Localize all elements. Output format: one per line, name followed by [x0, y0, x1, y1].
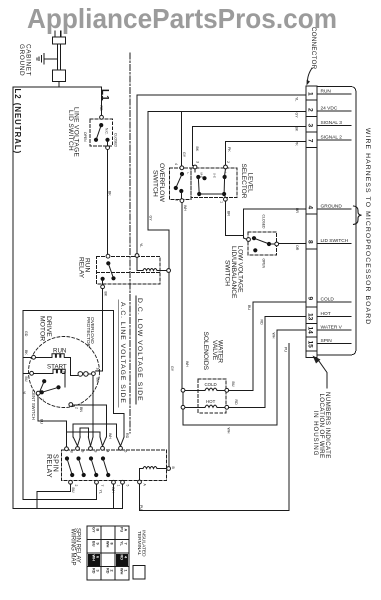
overload protector element	[71, 372, 96, 377]
ground symbol cabinet	[37, 54, 44, 65]
svg-text:RELAY: RELAY	[45, 454, 52, 478]
svg-text:L: L	[186, 173, 190, 175]
svg-text:4: 4	[174, 163, 178, 165]
svg-text:HOT: HOT	[206, 399, 216, 404]
svg-text:SOLENOIDS: SOLENOIDS	[202, 332, 209, 371]
level selector contacts	[193, 165, 227, 201]
svg-text:WH: WH	[108, 433, 112, 439]
svg-text:5: 5	[175, 199, 179, 201]
svg-text:WH: WH	[91, 555, 95, 562]
svg-text:BK: BK	[195, 147, 199, 152]
svg-text:SWITCH: SWITCH	[152, 170, 159, 197]
svg-text:AppliancePartsPros.com: AppliancePartsPros.com	[27, 3, 337, 34]
svg-text:D.C. LOW VOLTAGE SIDE: D.C. LOW VOLTAGE SIDE	[136, 298, 143, 402]
wire GY jog	[148, 229, 169, 231]
svg-text:GY: GY	[91, 527, 95, 533]
svg-text:SWITCH: SWITCH	[223, 260, 230, 286]
svg-text:2: 2	[226, 161, 230, 163]
svg-text:GY: GY	[170, 366, 174, 372]
funnel merge T4	[100, 437, 106, 446]
svg-text:A: A	[143, 484, 147, 487]
svg-text:BR: BR	[295, 208, 299, 213]
svg-text:YL: YL	[99, 490, 103, 494]
svg-text:YL: YL	[119, 541, 123, 547]
spin relay wiring map table	[87, 526, 129, 580]
wire GY bus vertical	[168, 230, 170, 469]
svg-text:CLOSED: CLOSED	[113, 133, 117, 147]
svg-text:BU: BU	[247, 305, 251, 310]
overflow switch contacts	[174, 166, 184, 203]
svg-text:WH: WH	[271, 333, 275, 339]
svg-text:PU: PU	[119, 527, 123, 533]
svg-text:PU: PU	[283, 347, 287, 352]
motor circle bottom terminal	[69, 403, 73, 407]
svg-text:3: 3	[196, 161, 200, 163]
wire L2 neutral vertical run	[12, 87, 14, 509]
svg-text:LID SWITCH: LID SWITCH	[321, 238, 349, 244]
svg-text:GROUND: GROUND	[321, 203, 343, 209]
board stub RUN	[317, 93, 351, 95]
svg-text:PROTECTOR: PROTECTOR	[85, 317, 91, 348]
level selector box	[191, 168, 237, 198]
svg-text:WIRING MAP: WIRING MAP	[69, 529, 75, 566]
spin relay pole 4	[101, 456, 110, 477]
underline D.C. label	[135, 296, 137, 404]
svg-text:BU: BU	[91, 541, 95, 547]
svg-text:VALVE: VALVE	[211, 340, 218, 361]
svg-text:RD: RD	[125, 433, 129, 439]
svg-text:15: 15	[307, 341, 314, 349]
svg-text:S-E: S-E	[213, 173, 217, 178]
wire BU cent switch lower	[38, 395, 66, 421]
svg-text:YL: YL	[295, 97, 299, 101]
svg-text:PU: PU	[139, 505, 143, 510]
svg-text:WH: WH	[185, 361, 189, 367]
wire OR to connector pin8 LID SWITCH	[279, 243, 306, 245]
svg-text:SPIN: SPIN	[321, 338, 333, 344]
wire cabinet ground lead	[44, 58, 57, 60]
svg-text:BK: BK	[108, 191, 112, 196]
svg-text:PK: PK	[227, 147, 231, 152]
wire GY vertical	[147, 111, 149, 230]
svg-text:RD: RD	[99, 106, 103, 112]
svg-text:OPEN: OPEN	[83, 132, 87, 142]
svg-text:1: 1	[307, 92, 314, 96]
svg-text:BK: BK	[104, 292, 108, 297]
svg-text:BU: BU	[71, 488, 75, 493]
board stub SIGNAL 3	[317, 125, 351, 127]
wire BU return	[37, 484, 71, 508]
wire YL vertical to run relay coil	[136, 95, 138, 254]
power plug P1	[53, 31, 66, 44]
water valve solenoids box	[198, 379, 226, 413]
wire branch horizontal py424	[73, 423, 116, 425]
svg-text:7: 7	[307, 139, 314, 143]
funnel merge T3	[88, 437, 93, 446]
svg-text:WH: WH	[119, 568, 123, 575]
line voltage lid switch SW1	[90, 115, 112, 149]
connector pin dividers	[306, 100, 317, 351]
insulated terminal symbol	[133, 566, 145, 580]
spin relay pole 1	[65, 456, 74, 477]
svg-text:CLOSED: CLOSED	[261, 215, 265, 229]
line filter box FL1	[53, 70, 66, 82]
connector strip	[306, 86, 317, 358]
wire BR level selector pin1 down	[225, 201, 243, 235]
motor start winding	[23, 369, 65, 387]
svg-text:HOT: HOT	[321, 311, 331, 317]
svg-text:WH: WH	[105, 541, 109, 548]
svg-text:BR: BR	[226, 211, 230, 216]
centrifugal switch contacts	[36, 379, 60, 395]
board stub 24 VDC	[317, 110, 351, 112]
svg-text:RD: RD	[91, 568, 95, 574]
svg-text:RD: RD	[234, 400, 238, 406]
svg-text:RUN: RUN	[321, 89, 332, 95]
svg-text:8: 8	[93, 451, 97, 453]
svg-text:7: 7	[100, 485, 104, 487]
spin relay box	[62, 450, 167, 481]
svg-text:COLD: COLD	[321, 296, 335, 302]
spin relay coil	[140, 467, 171, 480]
wire harness pin1 RUN YL horizontal	[137, 94, 306, 96]
spin relay pole 2	[76, 456, 85, 477]
svg-text:WATER V: WATER V	[321, 324, 343, 330]
svg-text:OR: OR	[295, 245, 299, 251]
svg-text:B: B	[69, 451, 73, 454]
cold solenoid	[181, 382, 229, 392]
underline A.C. label	[117, 300, 119, 407]
arrow connector pointer	[308, 68, 313, 80]
board stub GROUND	[317, 208, 351, 210]
funnel merge T5	[117, 437, 124, 446]
run relay coil	[135, 254, 170, 273]
wire harness pin7 SIGNAL2 PK horizontal	[226, 141, 307, 143]
svg-text:2: 2	[41, 399, 45, 401]
board stub SIGNAL 2	[317, 139, 351, 141]
svg-text:IN HOUSING: IN HOUSING	[312, 411, 319, 457]
overflow switch box	[170, 168, 192, 200]
svg-text:BN: BN	[79, 407, 83, 412]
leader numbers note to connector	[318, 359, 328, 388]
wire BK run relay to motor overload	[95, 289, 102, 371]
svg-text:16: 16	[96, 368, 100, 372]
svg-text:COLD: COLD	[205, 382, 217, 387]
svg-text:L2 (NEUTRAL): L2 (NEUTRAL)	[13, 89, 22, 155]
svg-text:SIGNAL 3: SIGNAL 3	[321, 120, 343, 126]
wire motor right edge to spin relay T5	[114, 311, 125, 438]
svg-text:START: START	[47, 363, 67, 370]
svg-text:BK: BK	[24, 350, 28, 355]
svg-text:WH: WH	[183, 205, 187, 211]
svg-text:WH: WH	[227, 428, 231, 434]
wire GY drop to overflow switch	[181, 111, 183, 166]
svg-text:L1: L1	[99, 89, 110, 101]
wire BU cold to pin9	[229, 302, 306, 390]
svg-text:BK: BK	[295, 127, 299, 132]
wire L1 drop to lid switch	[101, 87, 103, 116]
svg-text:BU: BU	[24, 377, 28, 382]
low voltage lid/unbalance switch box	[248, 232, 277, 255]
wire cent switch output	[73, 405, 107, 437]
wire BR to connector pin4 GROUND	[244, 209, 307, 238]
wire plug twin lead	[57, 44, 60, 70]
svg-text:13: 13	[307, 313, 314, 321]
svg-text:B: B	[171, 467, 175, 470]
svg-text:6: 6	[123, 451, 127, 453]
board stub SPIN	[317, 343, 351, 345]
svg-text:SELECTOR: SELECTOR	[240, 164, 247, 199]
wire L2 bottom bus	[13, 508, 123, 510]
brace pointing to board	[354, 206, 362, 224]
svg-text:RUN: RUN	[53, 347, 66, 354]
svg-text:MOTOR: MOTOR	[39, 316, 46, 341]
svg-text:4: 4	[105, 451, 109, 453]
svg-text:9: 9	[307, 297, 314, 301]
svg-text:2: 2	[74, 485, 78, 487]
wire T1 drop	[66, 421, 68, 447]
wire RD hot to pin13	[229, 317, 306, 408]
wire harness pin2 24VDC GY horizontal	[148, 110, 306, 112]
svg-text:BK: BK	[96, 378, 100, 383]
board stub WATER V	[317, 329, 351, 331]
svg-text:PK: PK	[295, 141, 299, 146]
svg-text:TERMINAL: TERMINAL	[136, 531, 142, 556]
wire L1 horizontal	[59, 86, 102, 88]
svg-text:8: 8	[307, 240, 314, 244]
hot solenoid	[181, 399, 229, 409]
lid/unbalance switch contacts	[247, 236, 279, 252]
drive motor circle	[29, 337, 100, 408]
svg-text:14: 14	[307, 327, 314, 335]
wire L2 neutral horizontal	[13, 86, 59, 88]
svg-text:GY: GY	[182, 152, 186, 158]
svg-text:5: 5	[126, 485, 130, 487]
wire branch T5 left leg	[116, 424, 118, 437]
funnel merge T2	[73, 437, 80, 446]
wire BK lid switch to run relay	[107, 150, 109, 255]
svg-text:4: 4	[307, 206, 314, 210]
svg-text:YL: YL	[139, 243, 143, 247]
svg-text:GY: GY	[149, 216, 153, 222]
spin relay pole 3	[89, 456, 98, 477]
svg-text:GY: GY	[295, 113, 299, 119]
wire overload to spin relay T3	[92, 376, 94, 438]
svg-text:N.C.: N.C.	[104, 128, 108, 135]
wire YL return to motor	[23, 484, 97, 499]
svg-text:2: 2	[75, 407, 79, 409]
svg-text:3: 3	[307, 124, 314, 128]
wire PK drop to level selector pin2	[225, 142, 227, 166]
run relay box	[97, 257, 161, 285]
svg-text:GROUND: GROUND	[18, 44, 25, 76]
svg-text:2: 2	[307, 108, 314, 112]
svg-text:YL: YL	[22, 391, 26, 395]
wire BK drop to level selector pin3	[193, 127, 196, 166]
svg-text:1: 1	[220, 201, 224, 203]
svg-text:SIGNAL 2: SIGNAL 2	[321, 134, 343, 140]
board stub LID SWITCH	[317, 243, 351, 245]
svg-text:L-M: L-M	[224, 173, 228, 179]
board stub COLD	[317, 301, 351, 303]
wire WH + 5 terminal to L2 bus	[114, 484, 123, 508]
svg-text:OPEN: OPEN	[261, 259, 265, 269]
svg-text:CONNECTOR: CONNECTOR	[310, 27, 317, 70]
svg-text:BU: BU	[231, 382, 235, 387]
svg-text:1: 1	[117, 485, 121, 487]
svg-text:24 VDC: 24 VDC	[321, 105, 338, 111]
svg-text:CENT SWITCH: CENT SWITCH	[31, 390, 36, 420]
svg-text:BU: BU	[40, 419, 44, 424]
drive motor enclosure top edge	[23, 310, 114, 312]
wire bridge T2-T3	[80, 428, 88, 437]
wire branch T2 left leg	[72, 424, 74, 437]
svg-text:M-E: M-E	[200, 173, 204, 179]
wire into lid/unbalance left terminal	[244, 238, 247, 239]
drive motor left edge / YL return wire	[22, 311, 24, 500]
svg-text:RD: RD	[119, 555, 123, 561]
svg-text:WIRE HARNESS TO MICROPROCESSOR: WIRE HARNESS TO MICROPROCESSOR BOARD	[364, 128, 371, 325]
svg-text:A.C. LINE VOLTAGE SIDE: A.C. LINE VOLTAGE SIDE	[119, 302, 126, 404]
microprocessor board outline	[317, 87, 356, 356]
svg-text:GD: GD	[24, 331, 28, 337]
spin relay bottom terminals	[69, 480, 142, 484]
spin relay top terminals	[65, 446, 123, 450]
wire WH solenoid common	[182, 203, 306, 426]
svg-text:RELAY: RELAY	[78, 257, 85, 279]
AC/DC divider line	[129, 53, 131, 433]
wire PU spin relay to connector pin15	[140, 344, 290, 511]
svg-text:RD: RD	[105, 568, 109, 574]
run relay internal divider	[97, 272, 161, 274]
svg-text:9: 9	[80, 451, 84, 453]
wire harness pin3 SIGNAL3 BK horizontal	[193, 126, 307, 128]
svg-text:LID SWITCH: LID SWITCH	[67, 110, 74, 151]
run relay switch contacts	[101, 254, 116, 288]
wire bridge T1-T4	[67, 432, 101, 437]
svg-text:RD: RD	[259, 320, 263, 326]
wire filter to L1/L2 junction	[58, 82, 60, 88]
motor run winding	[23, 354, 71, 376]
board stub HOT	[317, 316, 351, 318]
